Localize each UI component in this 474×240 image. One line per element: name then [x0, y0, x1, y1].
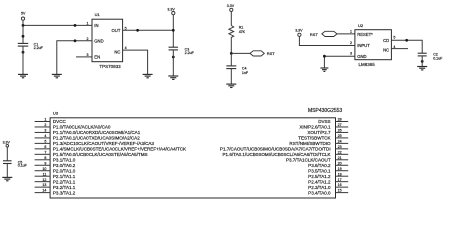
svg-text:P2.4/TA1.2: P2.4/TA1.2: [308, 179, 331, 184]
svg-text:XOUT/P2.7: XOUT/P2.7: [307, 130, 331, 135]
svg-text:U3: U3: [53, 111, 59, 116]
wire C1 top lead: [22, 25, 24, 43]
U3 pin 18 P2.5/TA1.2: [308, 172, 348, 179]
svg-text:2: 2: [87, 37, 89, 41]
wire RST node to C4: [230, 53, 232, 66]
ground below C2: [417, 67, 427, 70]
svg-text:P3.2/TA1.1: P3.2/TA1.1: [53, 185, 76, 190]
svg-text:1: 1: [87, 21, 89, 25]
svg-text:2.2uF: 2.2uF: [185, 51, 195, 55]
svg-text:P3.6/TA0.2: P3.6/TA0.2: [308, 163, 331, 168]
svg-text:9: 9: [44, 161, 46, 165]
svg-text:1nF: 1nF: [242, 71, 249, 75]
svg-text:P2.2/TA1.1: P2.2/TA1.1: [53, 179, 76, 184]
svg-text:GND: GND: [94, 38, 103, 43]
U3 pin 8 P3.1/TA1.0: [35, 156, 76, 163]
U3 pin 24 RST/NMI/SBWTDIO: [289, 139, 348, 146]
svg-text:47K: 47K: [239, 30, 246, 34]
svg-text:OUT: OUT: [112, 28, 121, 33]
svg-text:4: 4: [125, 46, 127, 50]
svg-text:U1: U1: [95, 12, 101, 17]
svg-text:P2.5/TA1.2: P2.5/TA1.2: [308, 174, 331, 179]
svg-text:P1.1/TA0.0/UCA0RXD/UCA0SOMI/A1: P1.1/TA0.0/UCA0RXD/UCA0SOMI/A1/CA1: [53, 130, 141, 135]
svg-text:10: 10: [42, 167, 46, 171]
ground below C5: [2, 177, 12, 180]
svg-text:23: 23: [338, 145, 342, 149]
svg-text:24: 24: [338, 139, 342, 143]
U3 pin 16 P2.3/TA1.0: [308, 183, 348, 190]
svg-text:P1.4/SMCLK/UCB0STE/UCA0CLK/VRE: P1.4/SMCLK/UCB0STE/UCA0CLK/VREF+/VEREF+/…: [53, 147, 186, 152]
svg-text:2: 2: [44, 123, 46, 127]
wire 3.3V rail down to C3: [172, 15, 174, 48]
U3 pin 23 P1.7/CAOUT/UCB0SIMO/UCB0SDA/A7/CA7/TDO/TDI: [220, 145, 348, 152]
svg-text:P3.1/TA1.0: P3.1/TA1.0: [53, 157, 76, 162]
svg-text:NC: NC: [383, 47, 389, 52]
junction dot C3 bottom: [172, 56, 175, 59]
svg-text:11: 11: [43, 172, 47, 176]
U3 pin 25 TEST/SBWTCK: [298, 134, 348, 141]
svg-text:0.1uF: 0.1uF: [18, 164, 28, 168]
svg-text:P1.6/TA0.1/UCB0SOMI/UCB0SCL/A6: P1.6/TA0.1/UCB0SOMI/UCB0SCL/A6/CA6/TDI/T…: [223, 152, 331, 157]
ground below U1 NC: [143, 74, 153, 77]
svg-text:3.3V: 3.3V: [295, 28, 303, 32]
junction dot U1 pin 1: [74, 24, 77, 27]
svg-text:1: 1: [44, 118, 46, 122]
U3 pin 22 P1.6/TA0.1/UCB0SOMI/UCB0SCL/A6/CA6/TDI/TCLK: [223, 150, 349, 157]
wire C1 bottom lead: [22, 46, 24, 74]
wire U1 OUT pin 5 to 3.3V rail: [123, 29, 174, 31]
svg-text:P1.5/TA0.0/UCB0CLK/UCA0STE/A5/: P1.5/TA0.0/UCB0CLK/UCA0STE/A5/CA5/TMS: [53, 152, 148, 157]
svg-text:2: 2: [350, 41, 352, 45]
svg-text:2.2uF: 2.2uF: [34, 46, 44, 50]
net flag RST (U2): [310, 31, 337, 37]
wire C5 bottom lead: [6, 164, 8, 178]
U3 pin 10 P2.0/TA1.0: [35, 167, 76, 174]
wire R1 to RST node: [230, 38, 232, 53]
ground below C4: [226, 84, 236, 87]
U3 pin 6 P1.4/SMCLK/UCB0STE/UCA0CLK/VREF+/VEREF+/A4/CA4/TCK: [35, 145, 186, 152]
svg-text:7: 7: [44, 150, 46, 154]
U3 pin 12 P2.2/TA1.1: [35, 178, 76, 185]
U2 pin numbers: [350, 30, 395, 56]
svg-text:INPUT: INPUT: [357, 43, 370, 48]
svg-text:0.1uF: 0.1uF: [433, 56, 443, 60]
U3 pin 2 P1.0/TA0CLK/ACLK/A0/CA0: [35, 123, 111, 130]
power terminal 3.3V pullup: [227, 4, 235, 11]
svg-text:P1.3/ADC10CLK/CAOUT/VREF-/VERE: P1.3/ADC10CLK/CAOUT/VREF-/VEREF-/A3/CA3: [53, 141, 155, 146]
svg-text:5: 5: [44, 139, 46, 143]
junction dot C1 top: [22, 35, 25, 38]
wire C3 bottom lead: [172, 50, 174, 76]
U3 pin 27 XIN/P2.6/TA0.1: [299, 123, 348, 130]
svg-text:TEST/SBWTCK: TEST/SBWTCK: [298, 136, 330, 141]
junction dot U1 pin 5: [136, 29, 139, 32]
svg-text:P1.0/TA0CLK/ACLK/A0/CA0: P1.0/TA0CLK/ACLK/A0/CA0: [53, 125, 111, 130]
svg-text:P3.0/TA0.2: P3.0/TA0.2: [53, 163, 76, 168]
wire C2 bottom lead: [421, 56, 423, 67]
U3 pin 28 DVSS: [318, 118, 348, 125]
svg-text:27: 27: [338, 123, 342, 127]
svg-text:EN: EN: [94, 54, 100, 59]
svg-text:19: 19: [338, 167, 342, 171]
svg-text:CD: CD: [383, 38, 389, 43]
svg-text:DVSS: DVSS: [318, 119, 330, 124]
U3 pin 11 P2.1/TA1.1: [35, 172, 76, 179]
net flag RST (mid): [250, 51, 275, 56]
svg-text:15: 15: [338, 189, 342, 193]
U2 pin names: [357, 32, 389, 59]
svg-text:25: 25: [338, 134, 342, 138]
U3 pin 19 P3.5/TA0.1: [308, 167, 348, 174]
svg-text:P3.7/TA1CLK/CAOUT: P3.7/TA1CLK/CAOUT: [286, 157, 331, 162]
U3 pin 9 P3.0/TA0.2: [35, 161, 76, 168]
svg-text:1: 1: [350, 30, 352, 34]
svg-text:GND: GND: [357, 54, 366, 59]
svg-text:XIN/P2.6/TA0.1: XIN/P2.6/TA0.1: [299, 125, 331, 130]
capacitor C2 0.1uF: [418, 53, 443, 61]
svg-text:21: 21: [338, 156, 342, 160]
resistor R1 47K: [229, 26, 246, 39]
svg-text:28: 28: [338, 118, 342, 122]
wire U1 GND pin 2 to ground: [57, 41, 92, 75]
svg-text:TPS70933: TPS70933: [99, 64, 121, 69]
ground below C3: [168, 76, 178, 79]
U3 pin 13 P3.2/TA1.1: [35, 183, 76, 190]
capacitor C1 2.2uF: [18, 42, 44, 50]
U3 pin 4 P1.2/TA0.1/UCA0TXD/UCA0SIMO/A2/CA2: [35, 134, 141, 141]
wire 3.3V to R1: [230, 12, 232, 26]
wire stub U2 NC pin 4: [391, 48, 408, 50]
junction dot RST node: [230, 52, 233, 55]
svg-text:3: 3: [44, 129, 46, 133]
svg-text:3.3V: 3.3V: [167, 7, 175, 11]
power terminal 5V: [21, 12, 26, 21]
U3 pin 5 P1.3/ADC10CLK/CAOUT/VREF-/VEREF-/A3/CA3: [35, 139, 155, 146]
U3 pin 14 P3.3/TA1.2: [35, 189, 76, 196]
U3 pin 20 P3.6/TA0.2: [308, 161, 348, 168]
svg-text:3.3V: 3.3V: [227, 4, 235, 8]
svg-text:22: 22: [338, 150, 342, 154]
svg-text:U2: U2: [358, 23, 364, 28]
junction 5V/C1 node: [22, 24, 25, 27]
wire 5V rail to U1 IN pin 1: [23, 24, 92, 26]
ground below U1 GND wire: [52, 74, 62, 77]
capacitor C5 0.1uF: [3, 160, 28, 167]
U3 pin 26 XOUT/P2.7: [307, 129, 348, 136]
op-amp U1 TPS70933 regulator box: [92, 12, 123, 69]
U3 pin 7 P1.5/TA0.0/UCB0CLK/UCA0STE/A5/CA5/TMS: [35, 150, 148, 157]
ground below C1: [18, 74, 28, 77]
svg-text:6: 6: [44, 145, 46, 149]
svg-text:RST: RST: [267, 51, 276, 56]
svg-text:RST: RST: [310, 32, 319, 37]
svg-text:20: 20: [338, 161, 342, 165]
U1 pin names: [94, 23, 121, 59]
svg-text:3: 3: [87, 53, 89, 57]
U3 pin 21 P3.7/TA1CLK/CAOUT: [286, 156, 348, 163]
svg-text:P2.0/TA1.0: P2.0/TA1.0: [53, 168, 76, 173]
wire U2 CD pin 5 to C2: [391, 40, 422, 53]
svg-text:17: 17: [338, 178, 342, 182]
svg-text:P1.2/TA0.1/UCA0TXD/UCA0SIMO/A2: P1.2/TA0.1/UCA0TXD/UCA0SIMO/A2/CA2: [53, 136, 140, 141]
junction dot C1 bottom: [22, 51, 25, 54]
svg-text:MSP430G2553: MSP430G2553: [308, 108, 342, 114]
svg-text:5V: 5V: [21, 12, 26, 16]
power terminal 3.3V DVCC: [3, 140, 11, 147]
junction dot U2 pin 5: [405, 39, 408, 42]
svg-text:P3.5/TA0.1: P3.5/TA0.1: [308, 168, 331, 173]
U3 pin 3 P1.1/TA0.0/UCA0RXD/UCA0SOMI/A1/CA1: [35, 129, 141, 136]
svg-text:5: 5: [393, 36, 395, 40]
svg-text:12: 12: [42, 178, 46, 182]
ground below U2 GND: [320, 68, 328, 71]
junction dot U2 GND corner: [323, 55, 326, 58]
U3 pin 15 P3.4/TA0.0: [308, 189, 348, 196]
svg-text:P2.3/TA1.0: P2.3/TA1.0: [308, 185, 331, 190]
svg-text:4: 4: [44, 134, 46, 138]
svg-text:RST/NMI/SBWTDIO: RST/NMI/SBWTDIO: [289, 141, 331, 146]
svg-text:P3.4/TA0.0: P3.4/TA0.0: [308, 190, 331, 195]
capacitor C3 2.2uF: [169, 47, 195, 55]
svg-text:P2.1/TA1.1: P2.1/TA1.1: [53, 174, 76, 179]
power terminal 3.3V output: [167, 7, 175, 14]
svg-text:16: 16: [338, 183, 342, 187]
svg-text:18: 18: [338, 172, 342, 176]
U3 pin 1 DVCC: [35, 118, 67, 125]
svg-text:14: 14: [42, 189, 46, 193]
svg-text:IN: IN: [94, 23, 98, 28]
op-amp U2 LM8365 box: [355, 23, 392, 67]
svg-text:13: 13: [42, 183, 46, 187]
svg-text:RESET*: RESET*: [357, 32, 373, 37]
svg-text:LM8365: LM8365: [359, 62, 376, 67]
capacitor C4 1nF: [226, 66, 249, 75]
U3 pin 17 P2.4/TA1.2: [308, 178, 348, 185]
wire U1 NC pin 4 to ground: [123, 50, 148, 74]
junction dot C2 bottom: [421, 60, 424, 63]
svg-text:P3.3/TA1.2: P3.3/TA1.2: [53, 190, 76, 195]
svg-text:DVCC: DVCC: [53, 119, 67, 124]
junction dot 3.3V rail / OUT: [172, 29, 175, 32]
svg-text:8: 8: [44, 156, 46, 160]
op-amp U3 MSP430G2553 box: [50, 108, 342, 198]
wire stub U1 EN pin 3: [76, 56, 92, 58]
svg-text:NC: NC: [114, 50, 120, 55]
wire 3.3V terminal to U2 INPUT pin 2: [299, 36, 355, 45]
wire U2 GND pin 3 to ground: [324, 56, 355, 68]
U1 pin numbers: [87, 21, 127, 57]
svg-text:3.3V: 3.3V: [3, 140, 11, 144]
power terminal 3.3V supervisor: [295, 28, 303, 36]
svg-text:5: 5: [125, 26, 127, 30]
wire RST flag to U2 pin 1: [337, 33, 355, 35]
wire 3.3V terminal to C5: [6, 147, 8, 161]
svg-text:R1: R1: [239, 26, 244, 30]
wire C4 bottom lead: [230, 69, 232, 85]
svg-text:P1.7/CAOUT/UCB0SIMO/UCB0SDA/A7: P1.7/CAOUT/UCB0SIMO/UCB0SDA/A7/CA7/TDO/T…: [220, 147, 331, 152]
junction dot U1 pin 2: [74, 39, 77, 42]
wire 5V terminal to node: [22, 20, 24, 25]
svg-text:3: 3: [350, 52, 352, 56]
svg-text:26: 26: [338, 129, 342, 133]
wire RST node to flag: [231, 52, 250, 54]
